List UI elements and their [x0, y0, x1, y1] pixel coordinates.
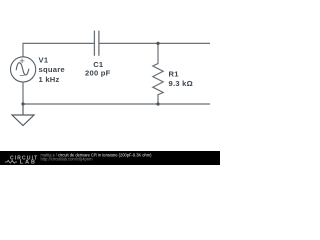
watermark bar: [0, 151, 220, 165]
svg-text:200 pF: 200 pF: [85, 68, 111, 77]
svg-text:LAB: LAB: [20, 160, 37, 165]
logo waveform: [5, 160, 17, 163]
voltage source V1: [11, 57, 36, 82]
svg-text:R1: R1: [169, 70, 180, 79]
wire from V1 bottom to ground node: [22, 82, 24, 104]
wire from C1 right plate to right edge: [99, 42, 210, 44]
node junction at ground: [21, 102, 24, 105]
svg-text:square: square: [39, 65, 65, 74]
svg-text:http://circuitlab.com/c6j4pnm: http://circuitlab.com/c6j4pnm: [41, 157, 93, 162]
svg-text:V1: V1: [39, 55, 49, 64]
wire bottom net from ground node to right edge: [23, 103, 210, 105]
wire from V1 top to C1 left plate: [23, 43, 94, 57]
node junction at R1 bottom: [156, 102, 159, 105]
resistor R1: [153, 43, 163, 104]
svg-text:1 kHz: 1 kHz: [39, 75, 60, 84]
capacitor C1: [94, 31, 99, 56]
node junction at R1 top: [156, 42, 159, 45]
ground: [12, 104, 34, 126]
svg-text:9.3 kΩ: 9.3 kΩ: [169, 79, 193, 88]
